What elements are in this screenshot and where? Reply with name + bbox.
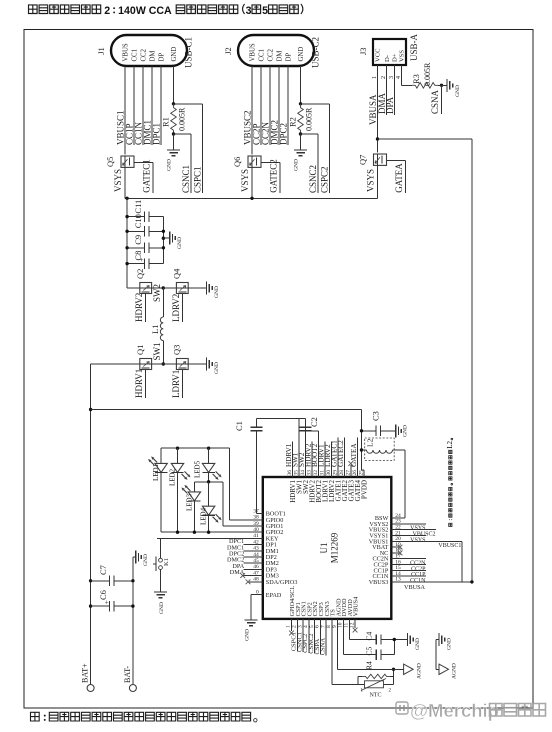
net label DPC2: [279, 123, 289, 145]
svg-text:D-: D-: [384, 55, 391, 62]
ground symbol at C3: [396, 424, 409, 437]
wire SW2 to L1: [162, 288, 164, 317]
wire C1 to BOOT1 pin: [256, 513, 263, 515]
U1 pin 24 number: [395, 513, 401, 519]
junction LED bottom b: [193, 531, 196, 534]
junction node below R2: [299, 132, 302, 135]
U1 pin 4 name CSP2: [306, 602, 313, 616]
wire VSS to R3: [402, 83, 413, 85]
wire Q4 gate: [181, 294, 183, 323]
U1 pin 16 number: [395, 559, 401, 565]
no-connect mark pin 12: [353, 628, 358, 633]
wire DMA: [377, 83, 387, 115]
U1 EPAD pin number: [256, 590, 259, 596]
no-connect mark pin 19: [398, 545, 403, 550]
net label HDRV2: [134, 293, 144, 322]
junction C10 left: [125, 230, 128, 233]
wire DPC1: [160, 66, 162, 145]
U1 pin 2 name CSP1: [295, 602, 302, 616]
svg-text:VCC: VCC: [375, 48, 382, 62]
junction C4-C5 gnd: [393, 638, 396, 641]
U1 pin 19 number: [395, 542, 401, 548]
U1 pin 20 name VBUS1: [369, 538, 389, 545]
no-connect mark pin 1: [289, 631, 294, 636]
J1 pin name CC1: [131, 49, 138, 61]
svg-text:D+: D+: [392, 53, 399, 62]
net label CSNC1: [181, 165, 191, 193]
net label SW1: [292, 452, 300, 467]
title text: [28, 4, 302, 17]
net label CSNC2: [308, 165, 318, 193]
transistor Q5: [121, 156, 134, 167]
svg-text:GATEA: GATEA: [394, 163, 404, 193]
svg-text:CC2: CC2: [267, 48, 274, 61]
U1 pin 5 name CSN2: [312, 601, 319, 616]
U1 pin 17 number: [395, 554, 401, 560]
wire battery to L2 (long): [91, 409, 362, 411]
J3 pin name D-: [384, 55, 391, 62]
J2 designator: [223, 47, 233, 55]
U1 pin 26 name GATE4: [354, 480, 362, 502]
svg-text:LDRV1: LDRV1: [171, 370, 181, 398]
J3 pin 3 stub: [389, 65, 395, 83]
wire DPC2: [287, 66, 289, 145]
U1 pin 17 name CC2N: [372, 556, 388, 563]
wire to ground: [300, 134, 302, 150]
U1 pin 10 number: [338, 622, 344, 628]
U1 pin 23 number: [395, 519, 401, 525]
op-amp U1 M12269 body: [263, 477, 392, 619]
wire CSNA tap: [441, 85, 443, 114]
svg-text:LED5: LED5: [194, 460, 202, 478]
svg-text:LED1: LED1: [152, 463, 160, 481]
svg-text:R2: R2: [288, 117, 298, 127]
wire U1 pin 36 HDRV1: [291, 442, 293, 478]
wire U1 pin 3 CSN1: [302, 619, 304, 652]
U1 pin 19 name VBAT: [372, 544, 388, 551]
net label DPC1: [152, 123, 162, 145]
svg-text:37: 37: [253, 508, 259, 514]
junction node VSYS-Q6: [250, 197, 253, 200]
svg-text:GND: GND: [171, 47, 178, 62]
Q2 designator: [135, 269, 145, 279]
svg-text:GND: GND: [447, 638, 453, 650]
net label CSNC1: [296, 632, 303, 652]
svg-text:C3: C3: [371, 411, 381, 421]
wire cap bank to ground: [163, 237, 169, 239]
U1 pin 38 number: [253, 515, 259, 521]
wire L2 to BSW: [393, 449, 405, 451]
watermark: [396, 700, 546, 721]
svg-text:R3: R3: [411, 74, 421, 84]
ground symbol below R1: [167, 150, 181, 171]
junction BAT+ power branch: [89, 408, 92, 411]
wire C4 to ground: [381, 639, 408, 641]
net label DPC1: [229, 538, 244, 545]
junction NTC-AGND: [392, 668, 395, 671]
wire SW2 to Q4: [163, 287, 176, 289]
U1 pin 33 number: [306, 470, 312, 476]
Q6 designator: [232, 157, 242, 167]
net label LDRV1: [318, 444, 326, 467]
LED LED2: [171, 448, 190, 532]
svg-text:J2: J2: [223, 47, 233, 55]
wire VBUSA from J3: [377, 83, 379, 152]
wire U1 pin 6 CSP3: [319, 619, 321, 655]
U1 pin 15 name CC1P: [374, 567, 389, 574]
terminal BAT+: [81, 663, 95, 692]
wire DPA: [385, 83, 395, 115]
U1 pin 30 number: [326, 470, 332, 476]
no-connect mark GATE3: [348, 461, 353, 466]
svg-text:VBUS3: VBUS3: [369, 579, 389, 586]
wire CC1P: [133, 66, 135, 145]
svg-text:Q3: Q3: [172, 345, 182, 355]
junction right rail C9: [162, 246, 165, 249]
svg-text:2: 2: [381, 76, 387, 79]
svg-text:NTC: NTC: [370, 693, 382, 699]
net label HDRV1: [134, 369, 144, 398]
svg-text:3: 3: [246, 5, 252, 17]
junction C11 left: [125, 215, 128, 218]
svg-text:U1: U1: [319, 543, 329, 554]
svg-text:GATEC2: GATEC2: [337, 440, 345, 467]
capacitor C7: [91, 565, 133, 586]
wire to ground: [173, 134, 175, 150]
wire U1 pin 20 VBUS1: [391, 540, 462, 542]
U1 pin 7 name CSN3: [324, 601, 331, 616]
U1 pin 40 number: [253, 527, 259, 533]
wire U1 pin 25 PVDD: [363, 470, 365, 477]
wire CSPC1 tap: [174, 104, 203, 193]
junction node below R1: [172, 132, 175, 135]
wire NTC right node: [393, 669, 395, 684]
wire U1 pin 26 GATE4: [356, 438, 358, 477]
wire GPIO1 riser: [222, 482, 224, 526]
net label VBUSC1: [116, 110, 126, 145]
net label CSPC1: [291, 632, 298, 651]
svg-text:DPA: DPA: [385, 96, 395, 114]
wire DMC1: [151, 66, 153, 145]
wire DVDD to C5: [344, 619, 377, 655]
ground symbol at K1: [154, 592, 167, 614]
wire KEY to switch: [160, 538, 162, 558]
connector J1 USB-C1 body: [111, 35, 187, 66]
svg-text:12: 12: [349, 622, 355, 628]
junction LED rail a: [176, 447, 179, 450]
wire U1 pin 29 GATE1: [337, 438, 339, 477]
ground symbol at Q4: [207, 282, 221, 299]
svg-text:USB-C1: USB-C1: [184, 37, 194, 68]
svg-text:VSYS: VSYS: [366, 169, 376, 192]
svg-text:GND: GND: [455, 85, 461, 97]
svg-text:AGND: AGND: [452, 663, 458, 679]
U1 pin 8 name TS: [330, 609, 337, 617]
svg-text:0.005R: 0.005R: [178, 107, 187, 131]
LED LED5: [202, 448, 221, 482]
svg-text:GND: GND: [403, 425, 409, 437]
svg-text:C1: C1: [234, 421, 244, 431]
resistor R1: [161, 104, 187, 134]
wire KEY net: [161, 537, 263, 539]
svg-text:CSNA: CSNA: [430, 89, 440, 114]
svg-text:EPAD: EPAD: [266, 592, 282, 599]
U1 pin 22 number: [395, 525, 401, 531]
junction BAT+ C7: [89, 579, 92, 582]
wire U1 pin 27 GATE3: [350, 465, 352, 477]
inductor L2: [362, 438, 393, 453]
U1 pin 16 name CC2P: [374, 562, 389, 569]
J1 pin name DP: [158, 53, 165, 62]
svg-text:Q7: Q7: [358, 155, 368, 165]
note about L2 usage: [446, 438, 454, 526]
svg-text:C10: C10: [133, 214, 143, 228]
net label VBUSC2: [243, 110, 253, 145]
svg-text:C11: C11: [133, 200, 143, 214]
U1 pin 38 name GPIO0: [266, 517, 284, 524]
terminal BAT-: [123, 666, 137, 692]
wire U1 pin 32 BOOT2: [317, 431, 319, 477]
wire GPIO0 riser: [228, 448, 230, 520]
junction node above R1: [172, 102, 175, 105]
U1 pin 25 number: [358, 470, 364, 476]
wire Q1 gate: [145, 370, 147, 399]
junction C3 tap: [360, 429, 363, 432]
Q5 designator: [105, 157, 115, 167]
svg-text:2: 2: [104, 5, 110, 17]
svg-text:LED4: LED4: [200, 507, 208, 525]
transistor Q2: [140, 283, 152, 294]
resistor R3: [411, 62, 438, 88]
U1 pin 46 number: [253, 564, 259, 570]
capacitor C10: [127, 214, 163, 236]
no-connect mark pin 48: [246, 579, 251, 584]
svg-text:CSNC2: CSNC2: [308, 165, 318, 193]
ground symbol below R2: [294, 150, 308, 171]
junction VBUSA rail corner: [470, 580, 473, 583]
wire Q6 gate to GATEC2: [261, 162, 280, 192]
wire LED top rail: [161, 447, 229, 449]
svg-text:CC2: CC2: [140, 48, 147, 61]
svg-text:VBUS4: VBUS4: [353, 597, 360, 617]
svg-text:VBUS: VBUS: [249, 43, 256, 61]
junction L2 tap: [360, 448, 363, 451]
U1 pin 21 name VSYS1: [369, 533, 388, 540]
connector J2 USB-C2 body: [238, 35, 314, 66]
LED LED3: [181, 482, 200, 532]
J3 designator: [358, 47, 368, 55]
USB-A label: [409, 33, 419, 61]
U1 pin 14 number: [395, 571, 401, 577]
J1 pin name DM: [149, 51, 156, 62]
U1 pin 13 number: [395, 577, 401, 583]
wire U1 pin 21 VSYS1: [391, 535, 426, 537]
J3 pin 4 stub: [396, 65, 402, 83]
LED2 label: [169, 468, 177, 486]
J2 pin name CC1: [258, 49, 265, 61]
transistor Q7: [374, 154, 387, 165]
wire VSYS rail to Q2: [127, 287, 140, 289]
svg-text:SDA/GPIO3: SDA/GPIO3: [266, 579, 298, 586]
svg-text:VSYS: VSYS: [410, 537, 425, 543]
capacitor C9: [127, 235, 163, 253]
svg-text:@Merchip: @Merchip: [410, 700, 499, 721]
U1 pin 39 number: [253, 521, 259, 527]
svg-text:L2: L2: [366, 438, 375, 447]
U1 pin 37 name BOOT1: [266, 511, 286, 518]
wire CSNC1 tap: [174, 134, 192, 193]
wire cap bank right rail: [162, 217, 164, 264]
wire U1 pin 33 HDRV2: [311, 442, 313, 478]
svg-text:DP: DP: [285, 53, 292, 62]
capacitor C1: [234, 419, 262, 514]
U1 pin 28 name GATE2: [341, 480, 349, 502]
U1 pin 5 number: [309, 625, 315, 628]
junction node R3 right: [440, 84, 443, 87]
net label HDRV2: [305, 443, 313, 467]
U1 pin 46 name DP3: [266, 566, 277, 573]
ground symbol at Q3: [207, 358, 221, 375]
U1 pin 48 name SDA/GPIO3: [266, 579, 298, 586]
net label GATEC1: [141, 159, 151, 193]
svg-text:Q4: Q4: [172, 268, 182, 279]
junction node above R2: [299, 102, 302, 105]
J2 pin name GND: [298, 47, 305, 62]
svg-text:Q2: Q2: [135, 269, 145, 279]
wire U1 pin 38 GPIO0: [229, 519, 262, 521]
svg-text:USB-C2: USB-C2: [311, 37, 321, 68]
wire BAT+ to Q1: [91, 363, 140, 365]
U1 pin 24 name BSW: [375, 515, 389, 522]
U1 pin 12 name VBUS4: [353, 597, 360, 617]
LED LED4: [202, 482, 221, 532]
U1 designator: [319, 543, 329, 554]
U1 pin 29 name GATE1: [334, 480, 342, 502]
net label LDRV2: [171, 294, 181, 322]
svg-text:0.005R: 0.005R: [423, 62, 432, 86]
J3 pin name VCC: [375, 48, 382, 62]
U1 pin 45 name DM2: [266, 560, 279, 567]
LED1 label: [152, 463, 160, 481]
USB-C1 label: [184, 37, 194, 68]
U1 pin 42 number: [253, 539, 259, 545]
svg-text:GND: GND: [214, 286, 220, 298]
wire TS net: [332, 619, 358, 684]
U1 pin 6 number: [315, 625, 321, 628]
net label CC1P: [125, 123, 135, 145]
U1 pin 31 name LDRV1: [321, 480, 329, 502]
net label CSNA: [320, 638, 327, 656]
svg-text:C8: C8: [133, 251, 143, 261]
wire U1 pin 17 CC2N: [391, 558, 426, 560]
junction LED rail b: [207, 447, 210, 450]
svg-text:VSS: VSS: [399, 50, 406, 62]
transistor Q3: [176, 359, 188, 370]
wire cap bank left rail: [126, 198, 128, 288]
wire U1 pin 35 SW1: [298, 419, 300, 477]
svg-text:VBUSA: VBUSA: [404, 584, 426, 591]
wire Q4 to ground: [188, 287, 206, 289]
wire C3 to ground: [381, 430, 396, 432]
wire U1 pin 28 GATE2: [343, 438, 345, 477]
junction LED bottom c: [207, 531, 210, 534]
svg-text:VBUSC1: VBUSC1: [438, 543, 461, 549]
net label BOOT2: [311, 443, 319, 467]
connector J3 USB-A body: [373, 39, 406, 65]
net label VBUSA right: [404, 584, 426, 591]
net label VSYS at Q7: [366, 169, 376, 192]
wire CSNC2 tap: [301, 134, 319, 193]
net label DMC2: [227, 557, 244, 564]
U1 pin 30 name LDRV2: [328, 480, 336, 502]
wire Q5 source to VSYS rail: [124, 167, 126, 198]
U1 part number M12269: [330, 532, 340, 563]
wire U1 pin 46 DP3: [244, 568, 263, 570]
svg-text:CSPC1: CSPC1: [193, 166, 203, 193]
Q4 designator: [172, 268, 182, 279]
junction BAT+ C6: [89, 604, 92, 607]
wire U1 pin 30 LDRV2: [330, 442, 332, 478]
net label VSYS at Q5: [113, 169, 123, 192]
U1 pin 3 name CSN1: [301, 601, 308, 616]
U1 pin 43 number: [253, 546, 259, 552]
net label CC1N: [410, 578, 426, 584]
net label CSNA: [430, 89, 440, 114]
junction node VSYS-caps: [125, 197, 128, 200]
wire to C3: [362, 430, 376, 432]
bottom note text: [31, 712, 258, 722]
U1 pin 26 number: [352, 470, 358, 476]
net label CC2N: [410, 561, 426, 567]
U1 pin 44 number: [253, 552, 259, 558]
wire tie to GND: [436, 639, 439, 641]
svg-text:GND: GND: [159, 602, 165, 614]
wire tie to AGND: [436, 668, 439, 670]
net label CSNC2: [308, 633, 315, 653]
wire U1 pin 5 CSN2: [314, 619, 316, 654]
wire J2 GND pin: [300, 66, 302, 104]
net label VSYS at Q6: [240, 169, 250, 192]
LED4 label: [200, 507, 208, 525]
U1 pin 32 number: [313, 470, 319, 476]
svg-text:BAT+: BAT+: [81, 663, 90, 683]
wire GND-AGND tie: [435, 640, 437, 670]
USB-C2 label: [311, 37, 321, 68]
J1 pin name VBUS: [122, 43, 129, 61]
svg-text:DP: DP: [158, 53, 165, 62]
wire LED mid rail: [194, 481, 223, 483]
U1 pin 44 name DP2: [266, 554, 277, 561]
svg-text:SW2: SW2: [152, 284, 162, 302]
junction cap bank gnd: [162, 237, 165, 240]
wire Q7 source to VSYS rail: [377, 165, 379, 198]
wire VBUS1 to VBUSA rail: [461, 541, 463, 582]
svg-text:LED3: LED3: [185, 493, 193, 511]
U1 pin 41 number: [253, 533, 259, 539]
svg-text:BAT-: BAT-: [123, 666, 132, 683]
svg-text:CC1: CC1: [131, 49, 138, 61]
capacitor C8: [127, 251, 163, 269]
resistor R2: [288, 104, 314, 134]
Q7 designator: [358, 155, 368, 165]
wire U1 pin 14 CC1N: [391, 575, 426, 577]
junction node VBUSA rail: [376, 137, 379, 140]
U1 pin 10 name DVDD: [341, 598, 348, 616]
U1 pin 32 name BOOT2: [315, 480, 323, 503]
net label DMC2: [270, 120, 280, 145]
U1 pin 25 name PVDD: [360, 480, 368, 499]
svg-text:GND: GND: [245, 629, 251, 641]
